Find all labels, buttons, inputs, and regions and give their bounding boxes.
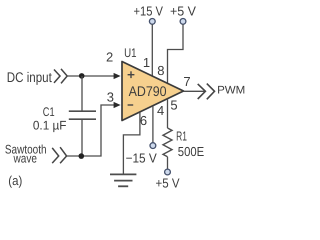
svg-text:500E: 500E	[178, 144, 205, 159]
resistor R1	[163, 128, 172, 157]
wire sawtooth to riser	[67, 105, 115, 156]
terminal -15V	[150, 143, 156, 149]
op-amp U1 AD790 triangle	[122, 62, 184, 121]
DC input source chevrons	[54, 69, 67, 84]
PWM output chevrons	[198, 84, 215, 100]
wire +15V to pin 1	[151, 24, 153, 76]
svg-text:(a): (a)	[8, 173, 22, 188]
svg-text:wave: wave	[13, 151, 37, 165]
wire C1 down to node B	[81, 119, 83, 156]
svg-text:3: 3	[107, 90, 114, 105]
wire pin 6 to ground	[123, 112, 139, 173]
arrowhead pin 2	[114, 73, 121, 79]
svg-text:0.1 µF: 0.1 µF	[33, 119, 67, 133]
node B (sawtooth junction)	[79, 153, 85, 159]
svg-text:8: 8	[157, 63, 164, 78]
svg-text:4: 4	[157, 103, 164, 118]
svg-text:+5 V: +5 V	[170, 3, 196, 18]
svg-text:PWM: PWM	[217, 85, 245, 97]
terminal +5V bottom	[165, 169, 171, 175]
svg-text:7: 7	[183, 74, 190, 89]
wire node A down to C1	[81, 76, 83, 111]
node A (DC input junction)	[79, 73, 85, 79]
wire +5V to pin 8	[168, 24, 184, 83]
wire pin 5 to R1	[167, 99, 169, 128]
capacitor C1	[69, 111, 96, 119]
svg-text:1: 1	[143, 55, 150, 70]
arrowhead pin 3	[114, 102, 121, 108]
wire DC input to pin 2	[67, 75, 114, 77]
wire pin 4 to -15V	[152, 106, 154, 143]
svg-text:U1: U1	[124, 46, 136, 60]
svg-text:6: 6	[140, 113, 147, 128]
svg-text:5: 5	[170, 97, 177, 112]
sawtooth source chevrons	[52, 147, 66, 163]
minus input mark	[128, 104, 134, 106]
svg-text:DC input: DC input	[7, 69, 52, 85]
ground	[110, 174, 136, 186]
svg-text:R1: R1	[176, 128, 187, 143]
svg-text:C1: C1	[43, 105, 55, 119]
svg-text:−15 V: −15 V	[126, 150, 157, 165]
svg-text:AD790: AD790	[129, 83, 167, 99]
wire R1 to +5V terminal	[167, 157, 169, 169]
svg-text:+15 V: +15 V	[134, 3, 164, 18]
svg-text:2: 2	[106, 49, 113, 64]
terminal +5V top	[180, 19, 186, 25]
wire pin 7 output	[184, 90, 206, 92]
plus input mark	[128, 71, 135, 78]
svg-text:+5 V: +5 V	[156, 176, 180, 191]
terminal +15V	[149, 19, 155, 25]
